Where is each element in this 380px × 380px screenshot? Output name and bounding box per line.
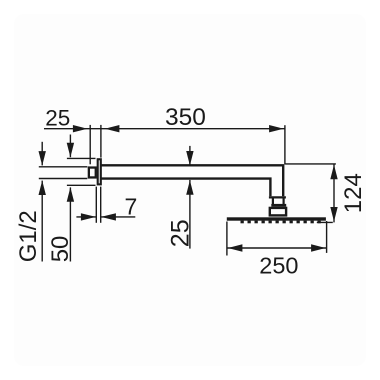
7-dim line left tail: [76, 216, 96, 218]
G1/2 dim line upper: [41, 142, 43, 166]
svg-text:25: 25: [166, 219, 194, 247]
250 extension left: [226, 222, 228, 256]
shower arm pipe top outline: [100, 165, 283, 196]
50 dim line upper: [69, 135, 71, 158]
svg-text:350: 350: [165, 104, 206, 131]
124 extension bottom: [317, 221, 333, 223]
G1/2 dim line lower: [41, 181, 43, 262]
svg-text:50: 50: [47, 236, 74, 263]
arrow 25pipe down: [186, 151, 193, 166]
124 dim line: [333, 164, 335, 223]
top dimension line: [44, 128, 285, 130]
extension line wall face: [89, 125, 91, 164]
svg-text:124: 124: [340, 173, 367, 213]
pipe end cap line: [269, 196, 286, 198]
arrow 50 down: [67, 143, 74, 158]
G1/2 extension top: [39, 166, 88, 168]
G1/2 extension bottom: [39, 178, 88, 180]
svg-text:G1/2: G1/2: [15, 210, 42, 262]
nozzle teeth: [241, 221, 321, 224]
arrow 7-right: [101, 213, 116, 220]
7-dim line right tail: [101, 216, 136, 218]
arrow 250 right: [311, 244, 326, 251]
shower arm pipe bottom outline: [100, 179, 270, 197]
extension line flange face: [100, 125, 102, 158]
50 dim line lower: [69, 187, 71, 261]
connector neck right side: [283, 197, 285, 204]
arrow 7-left: [81, 213, 96, 220]
ball joint nut: [270, 208, 286, 216]
shower head plate: [227, 217, 326, 220]
25 pipe dim line lower: [189, 180, 191, 249]
G1/2 wall connector nub: [89, 168, 96, 178]
svg-text:7: 7: [125, 194, 138, 220]
svg-text:25: 25: [45, 105, 70, 130]
connector band: [271, 204, 286, 207]
flange plate (escutcheon): [98, 159, 101, 184]
50 extension top: [67, 157, 96, 159]
arrow G1/2 up: [39, 181, 46, 196]
arrow 124 down: [330, 207, 337, 222]
arrow 250 left: [228, 244, 243, 251]
7-dim extension line right: [100, 187, 102, 223]
extension line arm end: [284, 125, 286, 164]
connector neck left side: [272, 197, 274, 204]
arrow 350-right: [269, 125, 284, 132]
arrow 25pipe up: [186, 180, 193, 195]
250 extension right: [326, 221, 328, 253]
124 extension top: [285, 163, 336, 165]
arrow 350-left: [105, 125, 120, 132]
arrow G1/2 down: [39, 151, 46, 166]
50 extension bottom: [67, 184, 96, 186]
arrow 124 up: [330, 165, 337, 180]
25 pipe dim line upper: [189, 146, 191, 166]
arrow 25-left: [73, 125, 88, 132]
250 dim line: [227, 247, 327, 249]
7-dim extension line left: [95, 187, 97, 223]
svg-text:250: 250: [259, 253, 298, 279]
arrow 50 up: [67, 187, 74, 202]
